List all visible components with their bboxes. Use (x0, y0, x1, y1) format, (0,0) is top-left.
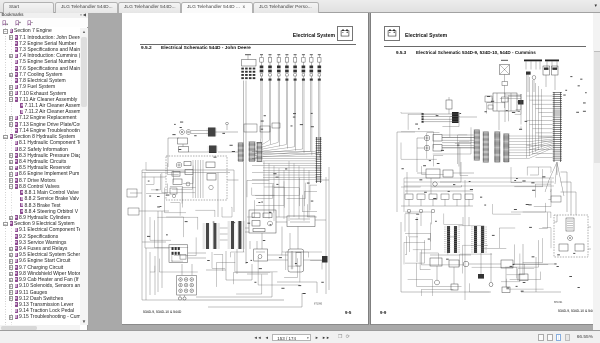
svg-text:8T1090: 8T1090 (314, 303, 323, 306)
svg-text:8H1091: 8H1091 (554, 301, 563, 304)
